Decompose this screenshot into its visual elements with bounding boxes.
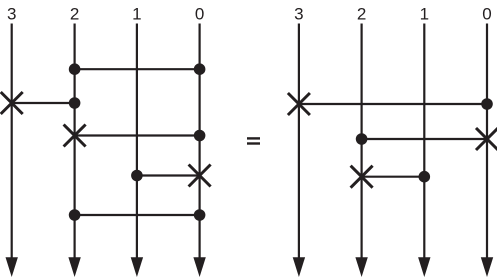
svg-text:0: 0 (482, 4, 491, 23)
svg-text:3: 3 (7, 4, 16, 23)
svg-text:3: 3 (294, 4, 303, 23)
svg-text:1: 1 (132, 4, 141, 23)
svg-text:2: 2 (70, 4, 79, 23)
svg-text:1: 1 (420, 4, 429, 23)
svg-text:2: 2 (357, 4, 366, 23)
svg-text:0: 0 (195, 4, 204, 23)
